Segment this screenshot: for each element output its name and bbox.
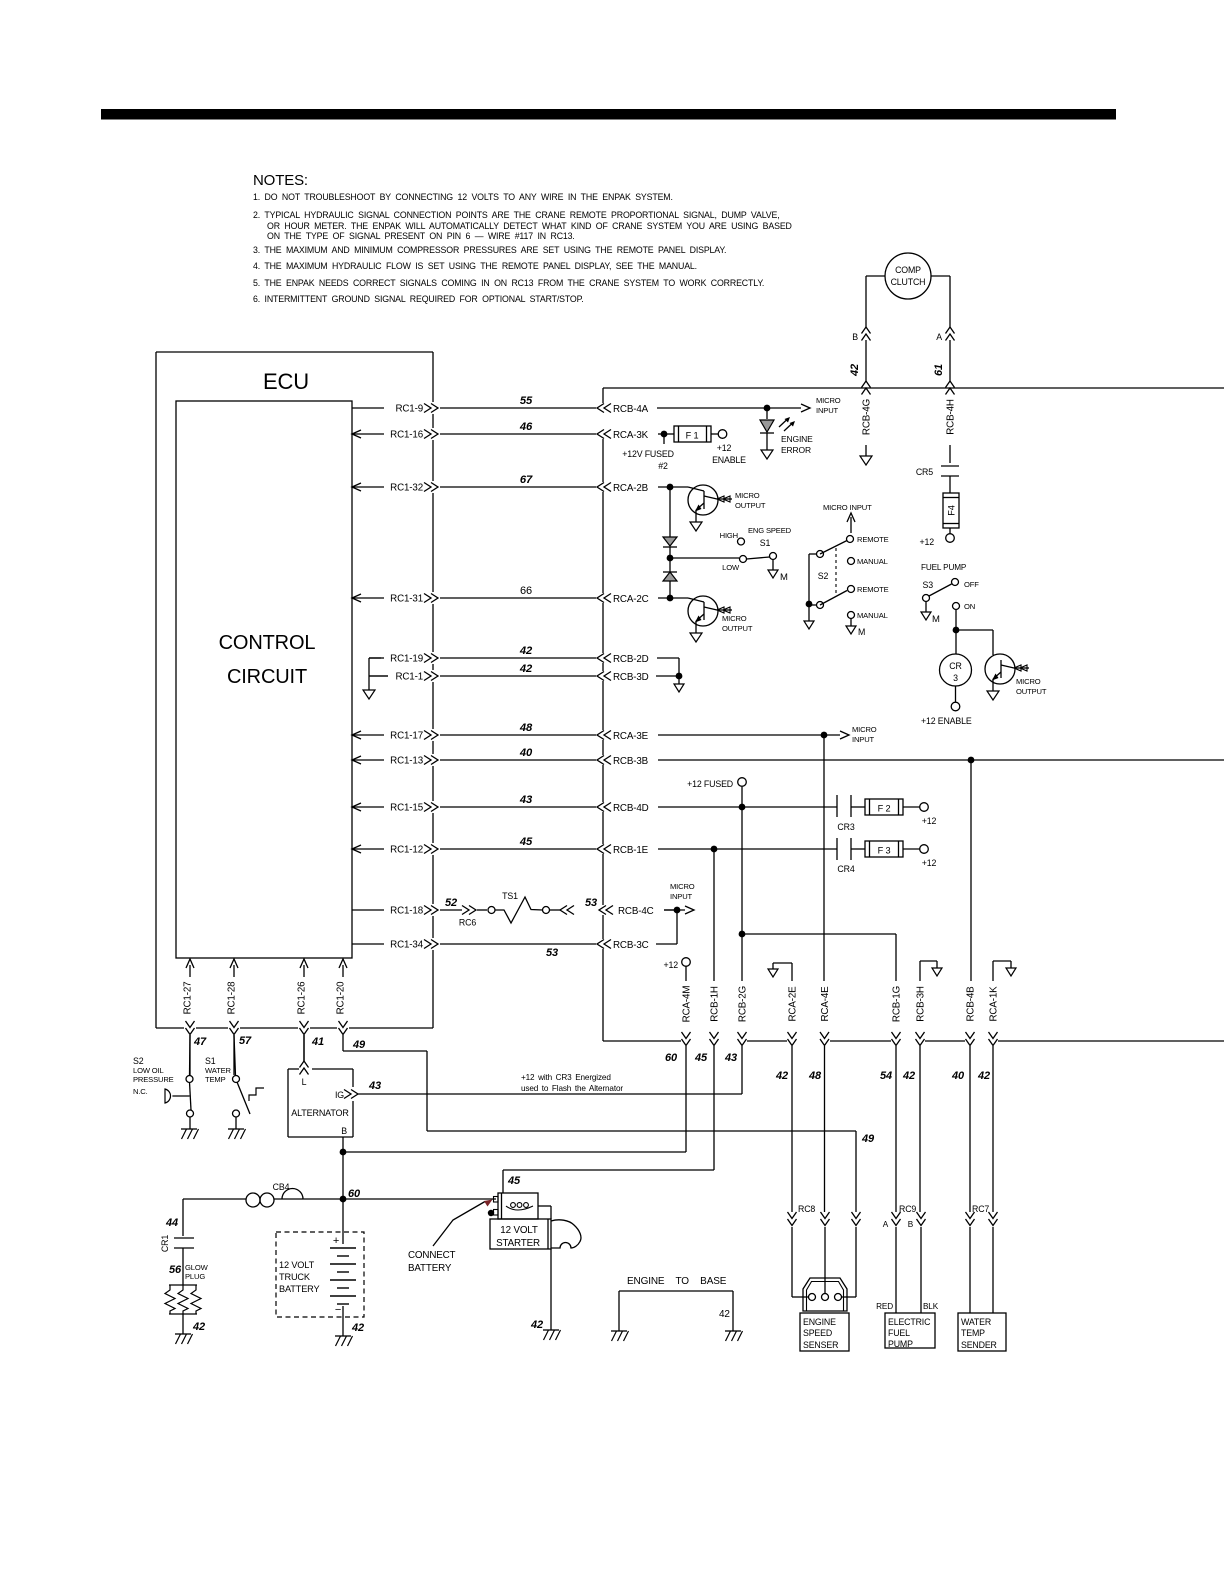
fuse F4 [943, 493, 959, 528]
svg-text:RCA-2B: RCA-2B [613, 483, 649, 494]
svg-text:RCB-4D: RCB-4D [613, 803, 649, 814]
fuse F2 [865, 799, 903, 815]
svg-text:ALTERNATOR: ALTERNATOR [291, 1108, 349, 1118]
svg-text:RC1-12: RC1-12 [390, 845, 423, 856]
svg-text:SENDER: SENDER [961, 1340, 997, 1350]
ground below LED [761, 450, 773, 459]
connector RCB-4H [946, 399, 957, 463]
svg-text:52: 52 [445, 897, 457, 909]
svg-text:43: 43 [368, 1080, 381, 1092]
svg-text:RED: RED [876, 1302, 893, 1311]
M ground for S3 [921, 612, 940, 625]
svg-text:CR: CR [949, 661, 961, 671]
connector column RCB-2G wire 43 [724, 931, 748, 1094]
ENGINE ERROR label [781, 434, 813, 455]
svg-text:40: 40 [519, 747, 533, 759]
connector cable bus line [602, 388, 604, 1041]
svg-text:RC1-9: RC1-9 [395, 404, 423, 415]
svg-text:RC1-20: RC1-20 [336, 981, 347, 1015]
clamp diode D2 [663, 560, 677, 595]
svg-text:OUTPUT: OUTPUT [722, 624, 753, 633]
chassis ground glow plug [175, 1334, 193, 1344]
svg-text:RCB-4A: RCB-4A [613, 404, 649, 415]
svg-text:55: 55 [520, 395, 533, 407]
connector column RCA-4E wire 48 [808, 738, 831, 1212]
+12 terminal RCA-4M [664, 958, 691, 981]
wire 43 RCB-4D [658, 804, 837, 811]
bottom pin RC1-26 wire 41 [297, 959, 324, 1061]
+12 ENABLE terminal [711, 430, 746, 465]
ground below Q3 [987, 691, 999, 700]
engine speed senser plug [803, 1278, 847, 1311]
svg-text:49: 49 [352, 1039, 366, 1051]
fuse F1 [674, 426, 711, 442]
svg-text:HIGH: HIGH [720, 531, 738, 540]
svg-text:RCB-3D: RCB-3D [613, 672, 649, 683]
ground bracket above RCA-1K [993, 961, 1016, 981]
svg-text:STARTER: STARTER [496, 1238, 540, 1249]
+12 terminal after F3 [903, 845, 936, 868]
transistor micro output Q3 [985, 654, 1047, 696]
chassis ground S2 [181, 1129, 199, 1139]
svg-text:S2: S2 [818, 571, 829, 581]
svg-text:MANUAL: MANUAL [857, 611, 888, 620]
connector column RCB-1H wire 45 [694, 852, 720, 1170]
wire 45: pin RC1-12 to connector RCB-1E [352, 836, 649, 856]
engine to base bonding strap [619, 1276, 733, 1331]
svg-text:2. TYPICAL HYDRAULIC SIGNAL CO: 2. TYPICAL HYDRAULIC SIGNAL CONNECTION P… [253, 210, 780, 220]
node RCA-2B [658, 484, 688, 491]
svg-text:−: − [335, 1304, 341, 1316]
svg-text:IG: IG [335, 1090, 344, 1100]
wire B comp clutch, wire 42 [849, 276, 885, 395]
engine speed senser box [800, 1313, 849, 1351]
connector column RCB-1G wire 54 [880, 986, 902, 1212]
svg-text:61: 61 [933, 364, 945, 376]
transistor micro output Q1 [688, 485, 766, 522]
alternator B output [340, 1126, 348, 1244]
switch S1 water temp [205, 1035, 264, 1129]
svg-text:45: 45 [694, 1052, 708, 1064]
svg-text:S1: S1 [205, 1056, 216, 1066]
svg-text:RC1-32: RC1-32 [390, 483, 423, 494]
alternator IG terminal wire 43 [335, 1080, 742, 1100]
svg-text:ERROR: ERROR [781, 445, 811, 455]
svg-text:ENG SPEED: ENG SPEED [748, 526, 792, 535]
svg-text:42: 42 [519, 663, 533, 675]
connector column RCB-3H wire 42 [902, 986, 926, 1212]
node RCB-4C micro input [664, 882, 695, 944]
svg-text:RCA-2E: RCA-2E [788, 986, 799, 1022]
starter motor body [490, 1206, 551, 1249]
ground below Q2 [690, 633, 702, 642]
svg-text:CONNECT: CONNECT [408, 1250, 456, 1261]
svg-text:RCB-2G: RCB-2G [738, 986, 749, 1022]
svg-text:F 1: F 1 [686, 431, 699, 441]
chassis ground S1 [228, 1129, 246, 1139]
svg-text:42: 42 [775, 1070, 788, 1082]
svg-text:MICRO: MICRO [670, 882, 695, 891]
chassis ground engine [611, 1331, 629, 1341]
svg-text:LOW OIL: LOW OIL [133, 1066, 164, 1075]
wire 46: pin RC1-16 to connector RCA-3K [352, 421, 649, 441]
svg-text:B: B [908, 1220, 914, 1229]
svg-text:RCA-4E: RCA-4E [820, 986, 831, 1022]
svg-text:CLUTCH: CLUTCH [891, 277, 926, 287]
svg-text:53: 53 [546, 947, 558, 959]
svg-text:#2: #2 [658, 461, 668, 471]
svg-text:F 2: F 2 [878, 804, 891, 814]
svg-text:BATTERY: BATTERY [408, 1263, 452, 1274]
wire from RCB-2G node to RCB-1G [742, 934, 896, 981]
node S1 feed [667, 555, 739, 562]
svg-text:RCA-3E: RCA-3E [613, 731, 649, 742]
svg-text:+12: +12 [664, 960, 679, 970]
svg-text:3. THE MAXIMUM AND MINIMUM COM: 3. THE MAXIMUM AND MINIMUM COMPRESSOR PR… [253, 245, 726, 255]
connector column RCB-4B wire 40 [951, 763, 976, 1212]
svg-text:42: 42 [519, 645, 533, 657]
wire 40 RCB-3B bus to right edge [658, 757, 1224, 764]
glow plug resistor bank, wire 56 [165, 1262, 209, 1334]
ground bracket above RCA-2E [768, 963, 792, 981]
svg-text:PLUG: PLUG [185, 1272, 205, 1281]
wire RCB-3D and ground [656, 673, 684, 692]
svg-text:WATER: WATER [961, 1317, 991, 1327]
svg-text:SPEED: SPEED [803, 1328, 832, 1338]
connector RCB-4G with ground [860, 399, 873, 465]
LED engine error indicator [760, 408, 774, 450]
svg-text:RCB-4C: RCB-4C [618, 906, 654, 917]
wire 67: pin RC1-32 to connector RCA-2B [352, 474, 649, 494]
svg-text:RCB-4G: RCB-4G [862, 399, 873, 435]
svg-text:RCA-2C: RCA-2C [613, 594, 649, 605]
svg-text:RC1-13: RC1-13 [390, 756, 424, 767]
svg-text:+12 ENABLE: +12 ENABLE [921, 716, 972, 726]
svg-text:RCB-3B: RCB-3B [613, 756, 649, 767]
svg-text:used to Flash the Alternat: used to Flash the Alternator [521, 1084, 623, 1093]
svg-text:57: 57 [239, 1035, 252, 1047]
wire 52: pin RC1-18 to connector RCB-4C [352, 891, 674, 928]
switch S2 remote/manual [806, 503, 889, 621]
svg-text:RC1-15: RC1-15 [390, 803, 424, 814]
node RCA-2C [658, 595, 688, 602]
alternator box [288, 1069, 353, 1137]
water temp sender box [958, 1313, 1006, 1351]
wire A comp clutch, wire 61 [931, 276, 955, 395]
svg-text:MICRO: MICRO [722, 614, 747, 623]
notes text block [253, 172, 792, 304]
svg-text:RC1-31: RC1-31 [390, 594, 423, 605]
title separator bar [101, 109, 1116, 120]
wire 45 RCB-1E [658, 846, 837, 853]
ground M for S1 [768, 570, 788, 583]
svg-text:ON: ON [964, 602, 975, 611]
svg-text:+12: +12 [920, 537, 935, 547]
svg-text:F 3: F 3 [878, 846, 891, 856]
alternator L terminal [300, 1035, 309, 1087]
ground bracket above RCB-3H [920, 961, 942, 981]
svg-text:ENABLE: ENABLE [712, 455, 746, 465]
svg-text:47: 47 [193, 1036, 207, 1048]
connector row bus line [603, 1040, 1224, 1042]
svg-text:67: 67 [520, 474, 533, 486]
svg-text:48: 48 [808, 1070, 822, 1082]
electric fuel pump box [885, 1313, 935, 1349]
svg-text:12 VOLT: 12 VOLT [500, 1225, 538, 1236]
svg-text:+12 with CR3 Energized: +12 with CR3 Energized [521, 1073, 611, 1082]
svg-text:42: 42 [192, 1321, 205, 1333]
svg-text:RC1-26: RC1-26 [297, 981, 308, 1015]
svg-text:RC1-18: RC1-18 [390, 906, 424, 917]
chassis ground battery [335, 1336, 353, 1346]
wire 55: pin RC1-9 to connector RCB-4A [352, 395, 649, 415]
svg-text:53: 53 [585, 897, 597, 909]
svg-text:60: 60 [348, 1188, 361, 1200]
svg-text:RCB-4H: RCB-4H [946, 399, 957, 435]
svg-text:RCA-1K: RCA-1K [989, 986, 1000, 1022]
svg-text:N.C.: N.C. [133, 1087, 148, 1096]
svg-text:1. DO NOT TROUBLESHOOT BY CONN: 1. DO NOT TROUBLESHOOT BY CONNECTING 12 … [253, 192, 673, 202]
svg-text:RC1-1: RC1-1 [395, 672, 423, 683]
svg-text:54: 54 [880, 1070, 892, 1082]
svg-text:RC1-17: RC1-17 [390, 731, 423, 742]
svg-text:42: 42 [351, 1322, 364, 1334]
svg-text:S3: S3 [923, 580, 934, 590]
svg-text:MANUAL: MANUAL [857, 557, 888, 566]
svg-text:OR HOUR METER. THE ENPAK WILL: OR HOUR METER. THE ENPAK WILL AUTOMATICA… [267, 221, 792, 231]
wire ON to CR3 coil node [953, 610, 993, 655]
svg-text:SENSER: SENSER [803, 1340, 838, 1350]
svg-text:ELECTRIC: ELECTRIC [888, 1317, 931, 1327]
ground for S2 common [804, 621, 814, 629]
svg-text:INPUT: INPUT [852, 735, 875, 744]
switch S1 ENG SPEED [720, 526, 792, 572]
clamp diode D1 [663, 487, 677, 556]
svg-text:49: 49 [861, 1133, 875, 1145]
svg-text:RCB-1E: RCB-1E [613, 845, 649, 856]
svg-text:S2: S2 [133, 1056, 144, 1066]
svg-text:42: 42 [977, 1070, 990, 1082]
bottom pin RC1-27 wire 47 [183, 959, 207, 1075]
svg-text:42: 42 [530, 1319, 543, 1331]
svg-text:OUTPUT: OUTPUT [735, 501, 766, 510]
svg-text:CIRCUIT: CIRCUIT [227, 666, 307, 688]
svg-text:INPUT: INPUT [816, 406, 839, 415]
connector RC7 chevrons [966, 1204, 998, 1313]
M ground below S2 MANUAL [846, 619, 865, 637]
svg-text:ENGINE: ENGINE [803, 1317, 836, 1327]
svg-text:RCB-1G: RCB-1G [892, 986, 903, 1022]
svg-text:BLK: BLK [923, 1302, 939, 1311]
+12 terminal below F4 [920, 528, 955, 547]
connector column RCA-1K wire 42 [977, 986, 999, 1212]
svg-text:RC6: RC6 [459, 918, 476, 928]
svg-text:+12: +12 [717, 443, 732, 453]
+12 ENABLE terminal below CR3 [921, 686, 972, 726]
bottom pin RC1-28 wire 57 [227, 959, 252, 1075]
svg-text:TEMP: TEMP [961, 1328, 985, 1338]
svg-text:A: A [936, 332, 942, 342]
connector RC8 chevrons [788, 1204, 861, 1297]
svg-text:MICRO: MICRO [1016, 677, 1041, 686]
svg-text:48: 48 [519, 722, 533, 734]
svg-text:FUEL: FUEL [888, 1328, 910, 1338]
starter nose casting [551, 1220, 581, 1248]
switch S3 fuel pump [921, 563, 979, 612]
circuit breaker CB4 [183, 1182, 343, 1207]
node on RCB-4A line and MICRO INPUT arrow [657, 396, 841, 415]
svg-text:40: 40 [951, 1070, 965, 1082]
wire 48: pin RC1-17 to connector RCA-3E [352, 722, 649, 742]
+12V FUSED #2 feed node [622, 431, 674, 471]
wire 43: pin RC1-15 to connector RCB-4D [352, 794, 649, 814]
svg-text:BATTERY: BATTERY [279, 1284, 319, 1294]
+12 terminal after F2 [903, 803, 936, 826]
svg-text:REMOTE: REMOTE [857, 585, 889, 594]
12 volt starter solenoid [488, 1193, 538, 1219]
svg-text:RCA-4M: RCA-4M [682, 986, 693, 1023]
svg-text:FUEL PUMP: FUEL PUMP [921, 563, 967, 572]
svg-text:RC9: RC9 [899, 1204, 916, 1214]
svg-text:RC8: RC8 [798, 1204, 815, 1214]
svg-text:A: A [883, 1220, 889, 1229]
svg-text:45: 45 [519, 836, 533, 848]
relay contact CR4 [837, 838, 865, 874]
connector column RCA-2E wire 42 [775, 986, 798, 1212]
svg-text:46: 46 [519, 421, 533, 433]
relay contact CR5 [916, 466, 959, 493]
svg-text:42: 42 [902, 1070, 915, 1082]
wire 60: B to RCA-4M [343, 1151, 686, 1153]
svg-text:CR4: CR4 [837, 864, 854, 874]
svg-text:RCB-1H: RCB-1H [710, 986, 721, 1022]
svg-text:ON THE TYPE OF SIGNAL PRESENT: ON THE TYPE OF SIGNAL PRESENT ON PIN 6 —… [267, 231, 575, 241]
svg-text:M: M [932, 614, 940, 625]
pins RC1-19/RC1-1 ground bracket [363, 658, 388, 699]
svg-text:+: + [333, 1235, 339, 1247]
svg-text:TS1: TS1 [502, 891, 518, 901]
svg-text:3: 3 [953, 673, 958, 683]
svg-text:RC1-16: RC1-16 [390, 430, 424, 441]
svg-text:COMP: COMP [895, 265, 921, 275]
svg-text:RCB-2D: RCB-2D [613, 654, 649, 665]
svg-text:RC1-19: RC1-19 [390, 654, 423, 665]
svg-text:MICRO INPUT: MICRO INPUT [823, 503, 872, 512]
svg-text:+12V FUSED: +12V FUSED [622, 449, 674, 459]
transistor micro output Q2 [688, 596, 753, 633]
svg-text:NOTES:: NOTES: [253, 172, 308, 189]
svg-text:WATER: WATER [205, 1066, 231, 1075]
svg-text:REMOTE: REMOTE [857, 535, 889, 544]
wire 66: pin RC1-31 to connector RCA-2C [352, 585, 649, 605]
bottom pin RC1-20 wire 49 [336, 959, 366, 1051]
svg-text:RC1-34: RC1-34 [390, 940, 424, 951]
wire 45 route to starter solenoid [503, 1170, 714, 1193]
svg-text:MICRO: MICRO [852, 725, 877, 734]
svg-text:M: M [780, 572, 788, 583]
svg-text:CONTROL: CONTROL [219, 632, 316, 654]
note: flash alternator [521, 1073, 623, 1093]
connector column RCA-4M wire 60 [665, 986, 692, 1152]
ground below Q1 [690, 522, 702, 531]
svg-text:GLOW: GLOW [185, 1263, 209, 1272]
svg-text:OUTPUT: OUTPUT [1016, 687, 1047, 696]
svg-text:TEMP: TEMP [205, 1075, 226, 1084]
svg-text:CR3: CR3 [837, 822, 854, 832]
svg-text:F4: F4 [947, 505, 957, 515]
top clutch feed line [603, 387, 1224, 389]
wire 42: pin RC1-1 to connector RCB-3D [369, 663, 649, 683]
connect battery leader [408, 1200, 493, 1275]
svg-text:S1: S1 [760, 538, 771, 548]
svg-text:INPUT: INPUT [670, 892, 693, 901]
svg-text:L: L [302, 1077, 307, 1087]
svg-text:MICRO: MICRO [816, 396, 841, 405]
svg-text:RCA-3K: RCA-3K [613, 430, 649, 441]
svg-text:42: 42 [849, 364, 861, 377]
svg-text:ECU: ECU [263, 369, 309, 394]
wire 53: pin RC1-34 to connector RCB-3C [352, 940, 649, 951]
svg-text:+12: +12 [922, 858, 937, 868]
svg-text:12 VOLT: 12 VOLT [279, 1260, 315, 1270]
wire 40: pin RC1-13 to connector RCB-3B [352, 747, 649, 767]
svg-text:45: 45 [507, 1175, 521, 1187]
svg-text:RCB-3H: RCB-3H [916, 986, 927, 1022]
wire 49 route to engine speed senser [343, 1051, 875, 1212]
connector RC9 chevrons A/B [876, 1204, 939, 1313]
svg-text:PUMP: PUMP [888, 1339, 913, 1349]
+12 FUSED terminal and feed line [687, 778, 746, 931]
relay coil CR3 [940, 654, 972, 686]
svg-text:60: 60 [665, 1052, 678, 1064]
svg-text:CR5: CR5 [916, 467, 933, 477]
starter ground wire 42 [530, 1249, 551, 1331]
svg-text:RCB-3C: RCB-3C [613, 940, 649, 951]
svg-text:TRUCK: TRUCK [279, 1272, 311, 1282]
node RCA-3E micro input [658, 725, 877, 744]
wire 42: pin RC1-19 to connector RCB-2D [369, 645, 649, 665]
svg-text:5. THE ENPAK NEEDS CORRECT SIG: 5. THE ENPAK NEEDS CORRECT SIGNALS COMIN… [253, 278, 764, 288]
chassis ground base [725, 1331, 743, 1341]
svg-text:44: 44 [165, 1217, 178, 1229]
svg-text:RCB-4B: RCB-4B [966, 986, 977, 1022]
light emission arrows [779, 417, 795, 431]
svg-text:+12: +12 [922, 816, 937, 826]
wire RCB-2D to ground tie [657, 658, 679, 676]
svg-text:6. INTERMITTENT GROUND SIGNAL: 6. INTERMITTENT GROUND SIGNAL REQUIRED F… [253, 294, 584, 304]
svg-text:+12 FUSED: +12 FUSED [687, 779, 733, 789]
fuse F3 [865, 841, 903, 857]
svg-text:42: 42 [719, 1309, 730, 1320]
svg-text:MICRO: MICRO [735, 491, 760, 500]
svg-text:43: 43 [519, 794, 533, 806]
svg-text:OFF: OFF [964, 580, 979, 589]
CONTROL CIRCUIT box [176, 401, 352, 958]
svg-text:RC1-27: RC1-27 [183, 982, 194, 1015]
wire RCB-3C link to RCB-4C node [546, 944, 677, 959]
svg-text:PRESSURE: PRESSURE [133, 1075, 174, 1084]
svg-text:LOW: LOW [722, 563, 740, 572]
svg-text:CR1: CR1 [160, 1235, 170, 1252]
svg-text:ENGINE TO BASE: ENGINE TO BASE [627, 1276, 727, 1287]
relay contact CR3 [837, 795, 865, 832]
svg-text:43: 43 [724, 1052, 737, 1064]
comp clutch motor [885, 253, 931, 299]
svg-text:66: 66 [520, 585, 532, 597]
svg-text:CB4: CB4 [273, 1182, 290, 1192]
ECU enclosure box [156, 352, 433, 1028]
svg-text:56: 56 [169, 1264, 182, 1276]
